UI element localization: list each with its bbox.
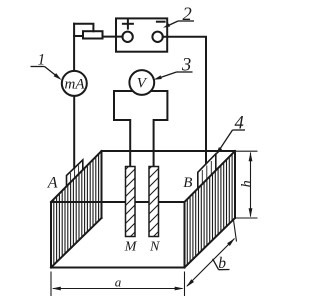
svg-text:A: A	[47, 175, 58, 192]
tank right rim	[185, 151, 236, 202]
plus sign	[123, 23, 133, 25]
svg-text:2: 2	[183, 5, 192, 25]
probe M	[120, 155, 140, 247]
tank back rim	[102, 150, 236, 152]
tank outline	[51, 151, 235, 268]
svg-text:mA: mA	[65, 77, 86, 93]
wire main left vertical (rheostat to mA)	[73, 24, 75, 71]
tank back-right edge	[234, 151, 236, 218]
dimension h	[236, 151, 258, 218]
plate A terminal tab	[67, 160, 83, 186]
tank right bottom edge	[185, 218, 236, 268]
voltmeter V	[129, 70, 154, 95]
svg-text:B: B	[183, 175, 192, 191]
label 3	[154, 55, 193, 80]
wire rheostat slider tap	[74, 24, 93, 32]
probe N	[143, 155, 163, 247]
tank front bottom edge	[51, 267, 185, 269]
plate A hatching	[54, 145, 99, 272]
wire battery to right rail	[163, 37, 206, 164]
tank front rim	[51, 201, 185, 203]
battery terminal -	[152, 32, 162, 42]
dimension a	[51, 272, 185, 297]
voltmeter bracket	[114, 91, 167, 167]
resistor R (rheostat)	[83, 31, 103, 38]
milliammeter mA	[73, 96, 75, 168]
svg-text:h: h	[239, 180, 255, 187]
svg-text:M: M	[124, 239, 138, 254]
svg-text:a: a	[115, 274, 122, 289]
tank left bottom edge	[51, 218, 102, 268]
minus sign	[157, 21, 165, 23]
battery box GB	[116, 18, 167, 51]
label 4	[216, 113, 245, 155]
plate B hatching	[187, 145, 232, 272]
label 1	[31, 52, 62, 80]
svg-text:N: N	[149, 239, 160, 254]
plate B terminal tab	[198, 154, 216, 189]
tank back-left edge	[101, 151, 103, 218]
tank front-left edge	[50, 202, 52, 268]
wire resistor right lead to battery	[103, 36, 123, 38]
tank left rim	[51, 151, 102, 202]
dimension b	[187, 220, 237, 286]
label 2	[163, 5, 194, 28]
battery terminal +	[122, 32, 132, 42]
label b	[213, 255, 230, 272]
wire resistor left lead	[74, 35, 83, 37]
tank front-right edge	[184, 202, 186, 268]
